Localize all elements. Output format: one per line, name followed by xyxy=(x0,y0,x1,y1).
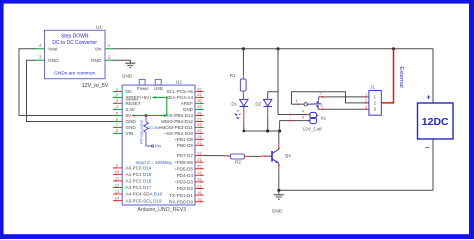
svg-text:32: 32 xyxy=(197,86,202,91)
svg-text:A3-PC3 D17: A3-PC3 D17 xyxy=(126,185,152,190)
svg-text:A1-PC1 D15: A1-PC1 D15 xyxy=(126,172,152,177)
svg-text:Power: Power xyxy=(137,86,150,91)
svg-text:−: − xyxy=(425,145,429,152)
svg-text:5V: 5V xyxy=(126,113,133,118)
svg-text:A4-PC4-SDA D18: A4-PC4-SDA D18 xyxy=(126,192,163,197)
svg-text:GND: GND xyxy=(126,119,137,124)
svg-text:GNDs are common: GNDs are common xyxy=(54,70,95,76)
svg-text:DC to DC Converter: DC to DC Converter xyxy=(52,40,97,46)
svg-text:~PD6-D6: ~PD6-D6 xyxy=(174,160,193,165)
svg-text:A2-PC2 D16: A2-PC2 D16 xyxy=(126,179,152,184)
svg-text:27: 27 xyxy=(197,116,202,121)
svg-text:R2: R2 xyxy=(235,160,241,165)
svg-text:Input Z = 100Meg: Input Z = 100Meg xyxy=(136,160,173,165)
svg-text:K1: K1 xyxy=(321,116,327,121)
svg-text:R1: R1 xyxy=(230,73,236,78)
svg-text:12: 12 xyxy=(115,182,120,187)
svg-text:NC: NC xyxy=(126,89,133,94)
svg-text:1: 1 xyxy=(365,93,367,97)
svg-text:GND: GND xyxy=(48,58,59,64)
svg-text:MISO-PB4-D12: MISO-PB4-D12 xyxy=(161,119,193,124)
svg-text:USB: USB xyxy=(154,86,163,91)
svg-text:10: 10 xyxy=(115,169,120,174)
svg-text:SCL-PC5-A5: SCL-PC5-A5 xyxy=(166,89,193,94)
svg-text:D2: D2 xyxy=(255,101,261,106)
svg-text:30: 30 xyxy=(197,98,202,103)
svg-text:18: 18 xyxy=(197,177,202,182)
svg-text:External: External xyxy=(398,66,404,87)
svg-text:Vout: Vout xyxy=(48,47,58,53)
svg-text:A0-PC0 D14: A0-PC0 D14 xyxy=(126,166,152,171)
svg-text:Q1: Q1 xyxy=(285,153,292,159)
svg-text:12DC: 12DC xyxy=(422,116,449,128)
svg-text:24: 24 xyxy=(197,134,202,139)
svg-text:31: 31 xyxy=(197,92,202,97)
svg-text:16: 16 xyxy=(197,190,202,195)
svg-text:26: 26 xyxy=(197,122,202,127)
svg-text:Pin: Pin xyxy=(155,144,162,149)
svg-text:~PD3-D3: ~PD3-D3 xyxy=(174,180,193,185)
svg-text:12V_to_5V: 12V_to_5V xyxy=(82,83,109,89)
svg-text:RX-PD0-D0: RX-PD0-D0 xyxy=(169,199,194,204)
svg-text:D1: D1 xyxy=(231,101,237,106)
svg-text:J1: J1 xyxy=(370,85,375,90)
svg-text:IOREF(+5V): IOREF(+5V) xyxy=(126,95,152,100)
svg-text:17: 17 xyxy=(197,183,202,188)
svg-text:GND: GND xyxy=(122,74,133,80)
svg-text:U2: U2 xyxy=(176,79,182,84)
svg-text:PD4-D4: PD4-D4 xyxy=(177,173,194,178)
svg-text:SDA-PC4-A4: SDA-PC4-A4 xyxy=(166,95,194,100)
svg-text:GND: GND xyxy=(183,107,194,112)
svg-text:GND: GND xyxy=(272,209,283,215)
svg-text:20-50k: 20-50k xyxy=(148,125,160,130)
svg-text:TX-PD1-D1: TX-PD1-D1 xyxy=(169,193,193,198)
svg-text:GND: GND xyxy=(126,125,137,130)
svg-text:ATmega pullup: ATmega pullup xyxy=(139,120,143,144)
svg-text:21: 21 xyxy=(197,157,202,162)
svg-text:13: 13 xyxy=(115,189,120,194)
svg-text:14: 14 xyxy=(115,195,120,200)
svg-text:PB0-D8: PB0-D8 xyxy=(177,143,194,148)
svg-text:~MOSI-PB3-D11: ~MOSI-PB3-D11 xyxy=(159,125,194,130)
svg-text:~PB1-D9: ~PB1-D9 xyxy=(174,137,193,142)
svg-text:29: 29 xyxy=(197,104,202,109)
svg-text:AREF: AREF xyxy=(181,101,193,106)
svg-text:23: 23 xyxy=(197,140,202,145)
svg-text:2: 2 xyxy=(365,99,367,103)
svg-text:3: 3 xyxy=(365,105,367,109)
svg-text:~SS-PB2-D10: ~SS-PB2-D10 xyxy=(164,131,193,136)
svg-text:Vin: Vin xyxy=(95,47,102,53)
svg-text:15: 15 xyxy=(197,197,202,202)
svg-text:RESET: RESET xyxy=(126,101,142,106)
svg-text:3.3V: 3.3V xyxy=(126,107,136,112)
svg-text:+: + xyxy=(426,95,430,102)
svg-text:12V_Coil: 12V_Coil xyxy=(302,127,321,132)
svg-text:~PD5-D5: ~PD5-D5 xyxy=(174,166,193,171)
svg-text:SCK-PB5-D13: SCK-PB5-D13 xyxy=(163,113,193,118)
svg-text:25: 25 xyxy=(197,128,202,133)
svg-text:PD7-D7: PD7-D7 xyxy=(177,153,194,158)
svg-text:20: 20 xyxy=(197,164,202,169)
svg-text:PD2-D2: PD2-D2 xyxy=(177,186,194,191)
svg-text:22: 22 xyxy=(197,150,202,155)
svg-text:U1: U1 xyxy=(96,25,102,30)
svg-text:Arduino_UNO_REV3: Arduino_UNO_REV3 xyxy=(137,207,186,213)
svg-text:A5-PC5-SCL D19: A5-PC5-SCL D19 xyxy=(126,198,163,203)
svg-text:28: 28 xyxy=(197,110,202,115)
svg-text:VIN: VIN xyxy=(126,131,134,136)
svg-text:Step DOWN: Step DOWN xyxy=(61,33,89,39)
svg-text:GND: GND xyxy=(91,58,102,64)
svg-text:19: 19 xyxy=(197,170,202,175)
